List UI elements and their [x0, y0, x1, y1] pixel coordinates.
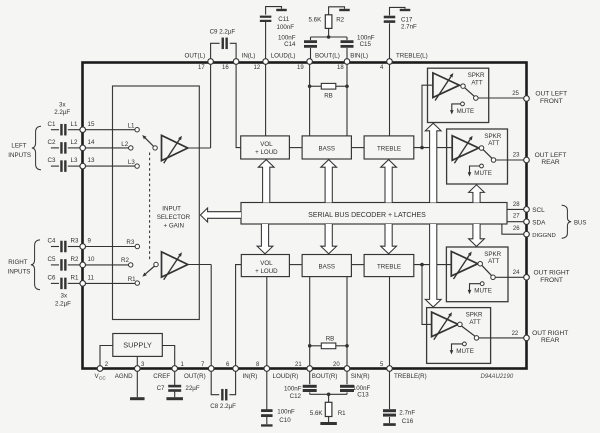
svg-text:MUTE: MUTE [474, 288, 492, 295]
svg-text:24: 24 [513, 270, 520, 276]
svg-text:FRONT: FRONT [540, 98, 563, 105]
svg-text:BUS: BUS [574, 220, 586, 226]
svg-text:L1: L1 [128, 123, 135, 130]
svg-text:28: 28 [513, 202, 520, 208]
svg-text:L2: L2 [121, 141, 128, 148]
svg-text:TREBLE: TREBLE [377, 264, 401, 271]
svg-text:L3: L3 [71, 157, 78, 164]
svg-text:BASS: BASS [319, 146, 336, 153]
svg-text:15: 15 [88, 121, 95, 128]
svg-text:10: 10 [88, 256, 95, 263]
svg-text:R2: R2 [71, 256, 79, 263]
svg-text:C16: C16 [402, 418, 414, 425]
svg-text:IN(L): IN(L) [242, 52, 256, 59]
svg-text:OUT(R): OUT(R) [184, 373, 206, 380]
svg-text:INPUTS: INPUTS [8, 269, 31, 276]
svg-text:C6: C6 [48, 275, 56, 282]
svg-text:18: 18 [337, 65, 344, 71]
svg-text:22: 22 [512, 331, 519, 337]
svg-text:OUT(L): OUT(L) [185, 52, 206, 59]
svg-text:MUTE: MUTE [457, 108, 475, 115]
svg-text:C5: C5 [48, 256, 56, 263]
svg-text:INPUTS: INPUTS [8, 152, 31, 159]
svg-text:LOUD(L): LOUD(L) [271, 52, 296, 59]
svg-text:12: 12 [254, 65, 261, 71]
svg-text:+ GAIN: + GAIN [164, 223, 184, 230]
svg-text:RB: RB [326, 336, 335, 343]
svg-text:CC: CC [99, 376, 106, 381]
svg-text:SELECTOR: SELECTOR [157, 214, 191, 221]
svg-text:TREBLE(R): TREBLE(R) [394, 373, 427, 380]
svg-text:14: 14 [88, 139, 95, 146]
svg-text:R3: R3 [126, 239, 134, 246]
svg-text:9: 9 [88, 238, 92, 245]
svg-text:REAR: REAR [541, 337, 560, 344]
svg-text:5.6K: 5.6K [310, 410, 324, 417]
svg-text:26: 26 [513, 226, 520, 232]
svg-text:SCL: SCL [532, 207, 545, 214]
svg-text:SPKR: SPKR [484, 133, 501, 140]
svg-text:27: 27 [513, 213, 520, 219]
svg-text:OUT RIGHT: OUT RIGHT [534, 270, 570, 277]
svg-text:OUT LEFT: OUT LEFT [535, 90, 567, 97]
svg-text:LOUD(R): LOUD(R) [273, 373, 299, 380]
svg-text:R1: R1 [338, 410, 346, 417]
svg-text:22µF: 22µF [185, 385, 199, 392]
svg-text:20: 20 [333, 362, 340, 368]
svg-text:L3: L3 [128, 159, 135, 166]
svg-text:100nF: 100nF [284, 385, 302, 392]
svg-text:3x: 3x [59, 101, 66, 108]
svg-text:OUT RIGHT: OUT RIGHT [532, 330, 568, 337]
svg-text:ATT: ATT [471, 79, 482, 86]
svg-text:C9 2.2µF: C9 2.2µF [210, 29, 236, 36]
svg-text:C1: C1 [48, 121, 56, 128]
svg-text:SIN(R): SIN(R) [351, 373, 370, 380]
svg-text:17: 17 [198, 65, 205, 71]
svg-text:+ LOUD: + LOUD [255, 149, 278, 156]
svg-text:+ LOUD: + LOUD [255, 268, 278, 275]
svg-text:5.6K: 5.6K [309, 16, 323, 23]
svg-text:SDA: SDA [532, 219, 546, 226]
svg-text:INPUT: INPUT [162, 206, 181, 213]
svg-text:R1: R1 [71, 275, 79, 282]
svg-text:C10: C10 [279, 417, 291, 424]
svg-text:C8 2.2µF: C8 2.2µF [210, 403, 236, 410]
svg-text:ATT: ATT [488, 140, 499, 147]
svg-text:FRONT: FRONT [540, 277, 563, 284]
svg-text:L1: L1 [71, 121, 78, 128]
svg-text:R2: R2 [336, 16, 344, 23]
svg-text:2.7nF: 2.7nF [401, 23, 417, 30]
svg-text:BOUT(R): BOUT(R) [312, 373, 338, 380]
svg-text:100nF: 100nF [277, 408, 295, 415]
svg-text:SPKR: SPKR [484, 251, 501, 258]
svg-text:13: 13 [88, 157, 95, 164]
svg-text:C11: C11 [278, 16, 289, 23]
svg-text:C14: C14 [284, 41, 296, 48]
svg-text:VOL: VOL [260, 260, 273, 267]
svg-text:23: 23 [513, 152, 520, 158]
svg-text:VOL: VOL [260, 141, 273, 148]
svg-text:25: 25 [512, 91, 519, 97]
svg-text:SUPPLY: SUPPLY [123, 340, 152, 349]
svg-text:TREBLE(L): TREBLE(L) [396, 52, 428, 59]
svg-text:3x: 3x [61, 292, 68, 299]
svg-text:BASS: BASS [319, 264, 336, 271]
svg-text:C2: C2 [48, 139, 56, 146]
svg-text:BIN(L): BIN(L) [350, 52, 368, 59]
svg-text:ATT: ATT [469, 319, 480, 326]
svg-text:2.2µF: 2.2µF [54, 109, 70, 116]
svg-text:C4: C4 [48, 238, 56, 245]
svg-text:IN(R): IN(R) [243, 373, 258, 380]
svg-text:SPKR: SPKR [466, 312, 483, 319]
svg-text:SERIAL BUS DECODER + LATCHES: SERIAL BUS DECODER + LATCHES [308, 212, 426, 219]
svg-text:2.7nF: 2.7nF [399, 410, 415, 417]
svg-text:REAR: REAR [541, 159, 560, 166]
svg-text:C15: C15 [360, 41, 372, 48]
svg-text:21: 21 [295, 362, 302, 368]
svg-text:11: 11 [88, 275, 95, 282]
svg-text:MUTE: MUTE [456, 348, 474, 355]
svg-text:CREF: CREF [153, 373, 170, 380]
svg-text:C3: C3 [48, 157, 56, 164]
svg-text:BOUT(L): BOUT(L) [315, 52, 340, 59]
svg-text:16: 16 [222, 65, 229, 71]
svg-text:R3: R3 [71, 238, 79, 245]
svg-text:100nF: 100nF [277, 24, 295, 31]
svg-text:RIGHT: RIGHT [8, 259, 27, 266]
svg-text:C17: C17 [401, 16, 413, 23]
svg-text:R2: R2 [121, 257, 129, 264]
svg-text:RB: RB [324, 92, 333, 99]
svg-text:OUT LEFT: OUT LEFT [535, 152, 567, 159]
svg-text:SPKR: SPKR [468, 72, 485, 79]
svg-text:L2: L2 [71, 139, 78, 146]
svg-text:AGND: AGND [115, 373, 133, 380]
svg-text:19: 19 [297, 65, 304, 71]
svg-text:2.2µF: 2.2µF [55, 301, 71, 308]
svg-text:TREBLE: TREBLE [377, 146, 401, 153]
svg-text:DIGGND: DIGGND [532, 233, 556, 239]
svg-text:LEFT: LEFT [11, 142, 26, 149]
svg-text:D94AU2190: D94AU2190 [481, 374, 514, 380]
svg-text:C7: C7 [157, 385, 165, 392]
svg-text:ATT: ATT [488, 258, 499, 265]
svg-text:C13: C13 [357, 392, 369, 399]
svg-text:MUTE: MUTE [474, 170, 492, 177]
svg-text:C12: C12 [290, 393, 302, 400]
